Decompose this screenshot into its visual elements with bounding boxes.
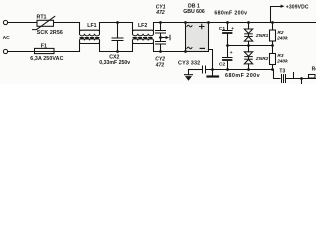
- wire top rail LF2 to bridge: [154, 22, 186, 24]
- label CY2: [155, 57, 165, 63]
- node CX2 bottom junction: [116, 50, 119, 53]
- svg-text:RT1: RT1: [37, 15, 47, 21]
- node CX2 top junction: [116, 21, 119, 24]
- capacitor CY3: [189, 66, 206, 73]
- label 680mF 200v bottom: [225, 73, 260, 79]
- wire minus rail to transformer: [273, 70, 281, 79]
- node R2 top junction: [271, 21, 274, 24]
- wire top rail RT1 to LF1: [54, 22, 80, 24]
- node mid junction ZNR: [247, 44, 250, 47]
- node ZNR1 top junction: [247, 21, 250, 24]
- ground bar at minus rail: [208, 70, 219, 77]
- svg-text:0,33mF 250v: 0,33mF 250v: [99, 60, 130, 66]
- resistor R2: [270, 23, 276, 46]
- svg-text:240k: 240k: [276, 58, 288, 64]
- wire top rail LF1 to LF2: [100, 22, 133, 24]
- label R3: [277, 53, 283, 59]
- wire mid rail: [228, 45, 273, 47]
- label C2: [219, 61, 226, 67]
- label T3: [279, 69, 285, 75]
- value 6,3A 250VAC: [30, 56, 63, 62]
- node junction bottom right: [300, 77, 303, 80]
- pin - bottom: [200, 47, 204, 49]
- svg-text:SCK 2R56: SCK 2R56: [37, 30, 63, 36]
- label ZNR2: [255, 56, 269, 62]
- wire T3 right lead: [293, 73, 295, 79]
- svg-text:680mF 200v: 680mF 200v: [214, 11, 247, 17]
- svg-text:+: +: [231, 27, 234, 32]
- wire bridge minus output: [209, 50, 213, 70]
- node mid junction R: [271, 44, 274, 47]
- svg-text:F1: F1: [41, 44, 47, 50]
- svg-text:C1: C1: [219, 26, 226, 32]
- label DB 1: [188, 4, 200, 10]
- label LF1: [87, 23, 96, 29]
- capacitor CY1: [156, 23, 166, 42]
- label CX2: [109, 54, 119, 60]
- value SCK 2R56: [37, 30, 63, 36]
- terminal AC top: [3, 20, 7, 24]
- node AC label: [3, 35, 11, 41]
- label 680mF 200v top: [214, 11, 247, 17]
- node CY2 bottom junction: [159, 50, 162, 53]
- capacitor CX2: [112, 23, 123, 52]
- node ZNR2 bottom junction: [247, 68, 250, 71]
- svg-text:472: 472: [155, 10, 165, 16]
- svg-text:R3: R3: [277, 53, 283, 59]
- label ZNR1: [255, 33, 269, 39]
- label LF2: [138, 23, 147, 29]
- node bridge AC2 corner: [184, 50, 187, 53]
- node C2 bottom junction: [226, 68, 229, 71]
- label R2: [277, 30, 283, 36]
- label +309VDC: [286, 4, 309, 10]
- label C1: [219, 26, 226, 32]
- node R3 bottom junction: [271, 68, 274, 71]
- svg-text:680mF 200v: 680mF 200v: [225, 73, 260, 79]
- svg-text:6,3A 250VAC: 6,3A 250VAC: [30, 56, 63, 62]
- value 472 top: [155, 10, 165, 16]
- TVS ZNR2: [244, 46, 252, 70]
- svg-text:472: 472: [155, 63, 165, 69]
- wire after T3: [287, 78, 317, 80]
- pin ~ bottom: [187, 47, 192, 49]
- wire plus rail: [209, 22, 317, 24]
- fuse F1: [35, 48, 55, 53]
- wire bottom rail LF2 to bridge: [154, 51, 186, 53]
- value 0,33mF 250v: [99, 60, 130, 66]
- label R4 partial: [312, 66, 319, 72]
- polarity plus C1: [231, 27, 234, 32]
- pin + top: [200, 24, 205, 28]
- transformer T3 winding: [282, 75, 286, 83]
- label CY3 332: [178, 60, 200, 66]
- value GBU 606: [183, 9, 205, 15]
- svg-text:+: +: [230, 51, 233, 56]
- svg-text:CY3 332: CY3 332: [178, 60, 200, 66]
- terminal AC bottom: [3, 49, 7, 53]
- earth ground funnel: [185, 70, 193, 81]
- label CY1: [156, 4, 166, 10]
- svg-text:C2: C2: [219, 61, 226, 67]
- wire bottom rail LF1 to LF2: [100, 51, 133, 53]
- capacitor CY2: [156, 42, 166, 52]
- node bridge plus corner: [207, 21, 210, 24]
- value 240k bottom: [276, 58, 288, 64]
- bridge rectifier DB1: [186, 23, 209, 52]
- svg-text:GBU 606: GBU 606: [183, 9, 205, 15]
- svg-text:240k: 240k: [276, 35, 288, 41]
- thermistor RT1: [33, 16, 55, 29]
- svg-text:T3: T3: [279, 69, 285, 75]
- output arrow +309VDC: [271, 5, 285, 23]
- node CY midpoint junction: [159, 36, 162, 39]
- resistor R4 partial: [309, 75, 316, 79]
- wire bottom rail left: [8, 51, 80, 53]
- polarity plus C2: [230, 51, 233, 56]
- svg-text:ZNR1: ZNR1: [255, 33, 269, 39]
- svg-text:ZNR2: ZNR2: [255, 56, 269, 62]
- node minus junction: [211, 68, 214, 71]
- node mid junction C: [226, 44, 229, 47]
- node CY1 top junction: [159, 21, 162, 24]
- label F1: [41, 44, 47, 50]
- choke LF2: [133, 23, 154, 52]
- wire top rail left: [8, 22, 37, 24]
- wire stub down from junction: [301, 79, 303, 85]
- capacitor C2: [223, 46, 233, 70]
- svg-text:LF2: LF2: [138, 23, 147, 29]
- svg-text:LF1: LF1: [87, 23, 96, 29]
- svg-text:R4: R4: [312, 66, 316, 72]
- svg-text:+309VDC: +309VDC: [286, 4, 309, 10]
- svg-text:R2: R2: [277, 30, 283, 36]
- resistor R3: [270, 46, 276, 70]
- node bridge AC1 corner: [184, 21, 187, 24]
- value 240k top: [276, 35, 288, 41]
- value 472 bottom: [155, 63, 165, 69]
- label RT1: [37, 15, 47, 21]
- TVS ZNR1: [244, 23, 252, 46]
- wire minus rail: [206, 69, 273, 71]
- svg-text:AC: AC: [3, 35, 11, 41]
- choke LF1: [80, 23, 100, 52]
- node C1 top junction: [226, 21, 229, 24]
- pin ~ top: [187, 25, 192, 27]
- chassis arrow ground: [161, 35, 171, 40]
- capacitor C1: [223, 23, 233, 46]
